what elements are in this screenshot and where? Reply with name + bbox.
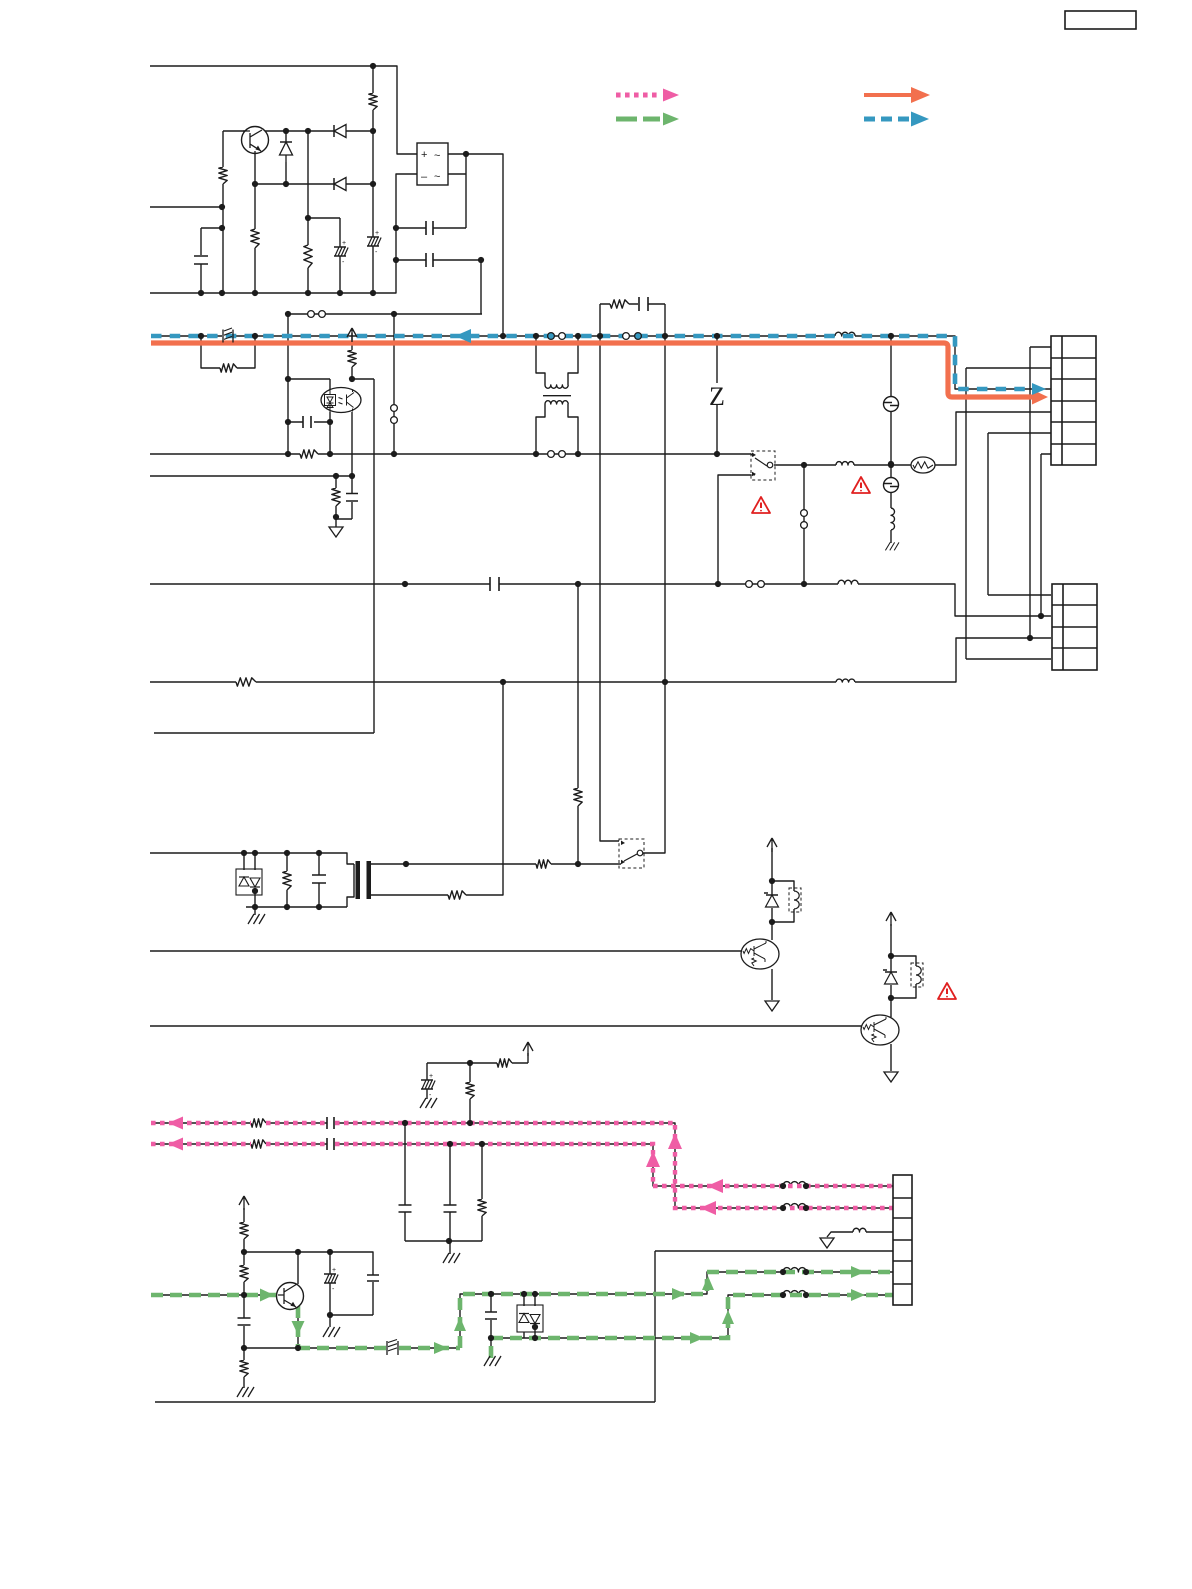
svg-text:–: –: [421, 171, 428, 183]
svg-text:+: +: [429, 1073, 433, 1080]
svg-text:+: +: [332, 1267, 336, 1274]
svg-text:~: ~: [434, 171, 440, 183]
svg-text:+: +: [421, 149, 427, 161]
svg-text:+: +: [342, 240, 346, 247]
svg-text:~: ~: [434, 150, 440, 162]
svg-text:Z: Z: [709, 382, 725, 411]
svg-text:+: +: [375, 230, 379, 237]
